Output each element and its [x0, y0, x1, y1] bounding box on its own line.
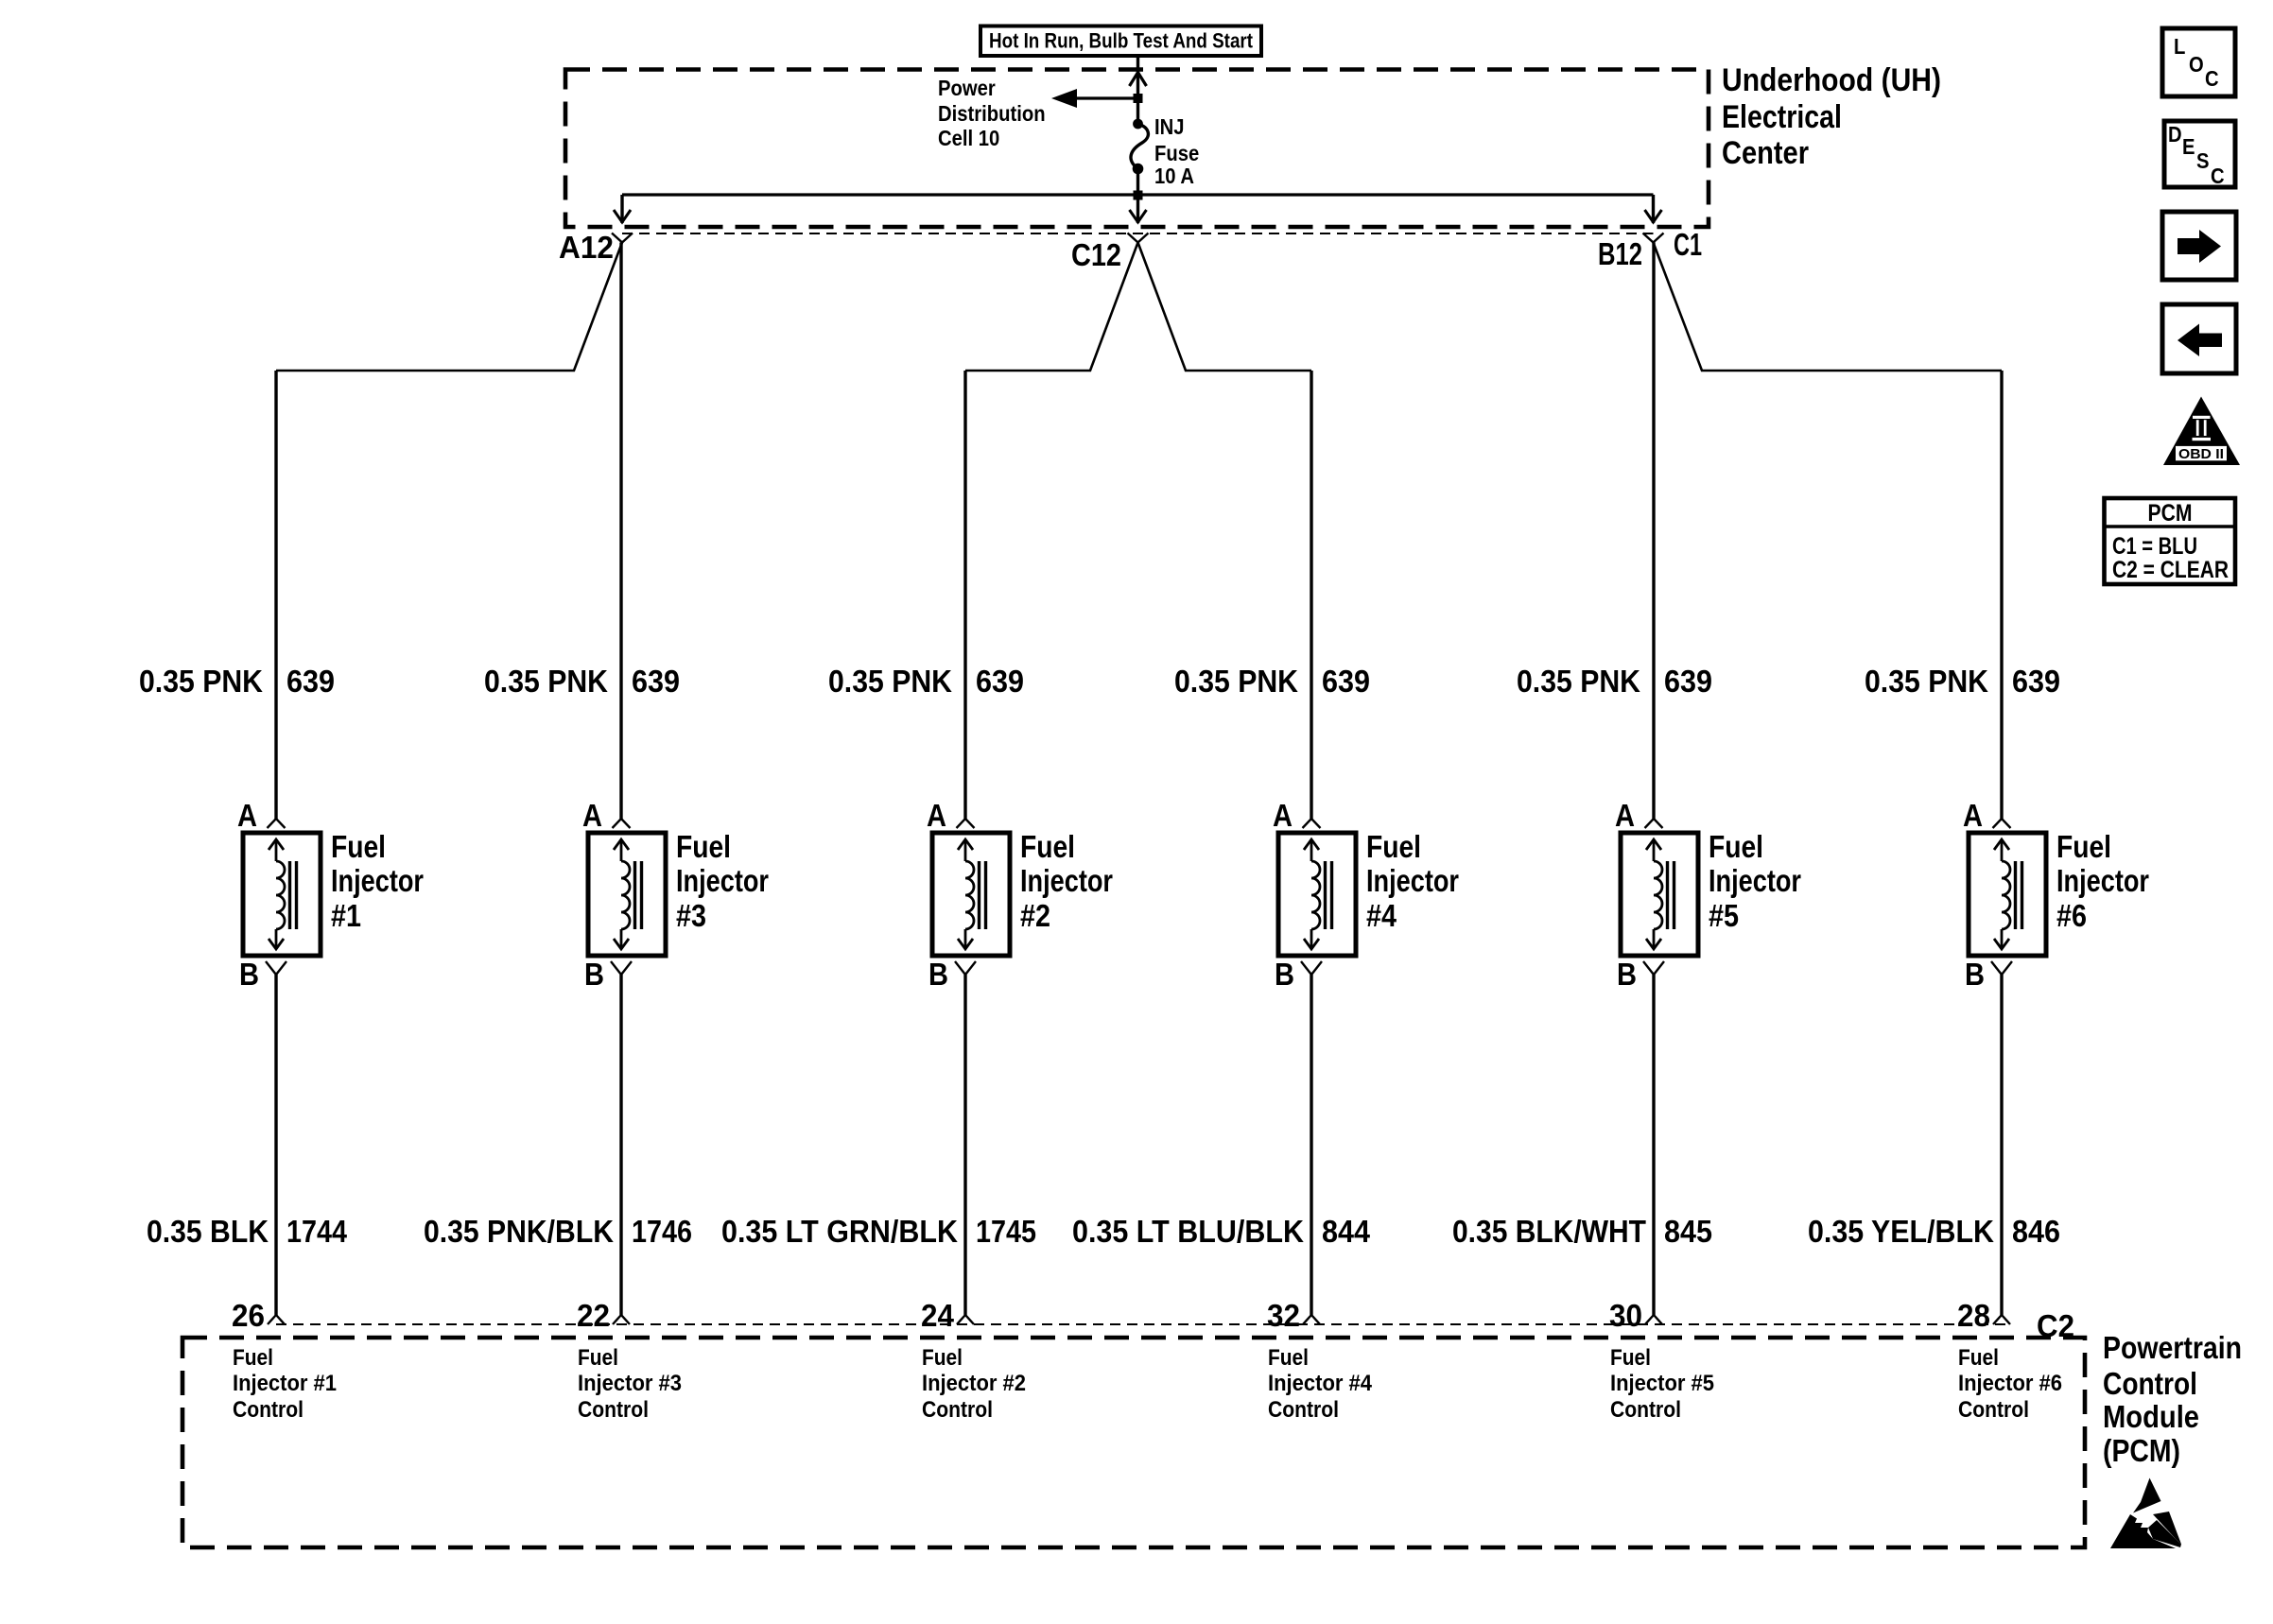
- svg-text:#1: #1: [331, 898, 361, 933]
- svg-text:0.35 PNK: 0.35 PNK: [1865, 664, 1988, 699]
- wire label 0.35 PNK 639 col1: [139, 664, 335, 699]
- icon back arrow box: [2162, 304, 2236, 373]
- svg-text:639: 639: [1664, 664, 1712, 699]
- svg-text:Underhood (UH): Underhood (UH): [1722, 62, 1941, 98]
- svg-text:C1 = BLU: C1 = BLU: [2112, 533, 2197, 560]
- svg-text:Injector #1: Injector #1: [233, 1371, 337, 1396]
- svg-text:L: L: [2174, 34, 2185, 59]
- wire C12 branch to injector 2: [965, 243, 1138, 820]
- svg-text:Fuel: Fuel: [1020, 829, 1075, 864]
- PCM connector face dashed line: [276, 1323, 2006, 1325]
- svg-text:Injector #6: Injector #6: [1958, 1371, 2062, 1396]
- label INJ Fuse 10 A: [1154, 114, 1199, 188]
- svg-text:Power: Power: [938, 76, 996, 100]
- svg-text:Control: Control: [2103, 1366, 2197, 1401]
- svg-text:639: 639: [632, 664, 680, 699]
- wire injector #1 to PCM pin 26: [274, 975, 277, 1315]
- wire label 0.35 PNK 639 col4: [1174, 664, 1370, 699]
- svg-text:Fuel: Fuel: [1610, 1345, 1651, 1371]
- wire from Hot In Run box down to fuse: [1136, 58, 1139, 124]
- wire injector #6 to PCM pin 28: [2000, 975, 2003, 1315]
- label C1: [1674, 227, 1702, 262]
- wire label 0.35 LT BLU/BLK 844: [1072, 1214, 1371, 1249]
- svg-text:Fuel: Fuel: [578, 1345, 618, 1371]
- svg-text:639: 639: [1322, 664, 1370, 699]
- svg-text:0.35 BLK: 0.35 BLK: [147, 1214, 269, 1249]
- svg-text:#5: #5: [1709, 898, 1739, 933]
- svg-text:639: 639: [286, 664, 335, 699]
- svg-text:Injector: Injector: [331, 863, 424, 898]
- svg-text:10 A: 10 A: [1154, 164, 1194, 188]
- connector pin 32: [1267, 1298, 1320, 1333]
- svg-text:B: B: [1965, 957, 1985, 992]
- wire label 0.35 YEL/BLK 846: [1808, 1214, 2060, 1249]
- svg-text:(PCM): (PCM): [2103, 1433, 2180, 1468]
- wire injector #3 to PCM pin 22: [619, 975, 622, 1315]
- svg-text:OBD II: OBD II: [2178, 446, 2224, 462]
- wire label 0.35 LT GRN/BLK 1745: [721, 1214, 1036, 1249]
- svg-text:Fuel: Fuel: [922, 1345, 963, 1371]
- svg-text:Control: Control: [922, 1397, 993, 1423]
- label Underhood (UH) Electrical Center: [1722, 62, 1941, 171]
- PCM label Fuel Injector #3 Control: [578, 1345, 682, 1423]
- connector B12: [1598, 233, 1664, 272]
- svg-text:B: B: [239, 957, 259, 992]
- svg-text:1745: 1745: [976, 1214, 1036, 1249]
- PCM label Fuel Injector #2 Control: [922, 1345, 1026, 1423]
- arrow up into Hot In Run box: [1130, 73, 1147, 87]
- svg-text:Fuel: Fuel: [233, 1345, 273, 1371]
- svg-text:A: A: [1963, 798, 1983, 833]
- UH EC connector face dashed line: [622, 233, 1654, 234]
- fuel injector #1 (column 1): [237, 798, 321, 992]
- svg-text:32: 32: [1267, 1298, 1300, 1333]
- wire label 0.35 PNK 639 col2: [484, 664, 680, 699]
- bus drop to A12: [614, 195, 631, 223]
- svg-text:Center: Center: [1722, 135, 1809, 171]
- label Powertrain Control Module (PCM): [2103, 1330, 2242, 1468]
- svg-text:639: 639: [976, 664, 1024, 699]
- svg-text:0.35 YEL/BLK: 0.35 YEL/BLK: [1808, 1214, 1994, 1249]
- svg-text:0.35 PNK: 0.35 PNK: [484, 664, 608, 699]
- svg-text:A: A: [1615, 798, 1635, 833]
- bus drop to B12: [1645, 195, 1662, 223]
- svg-text:C: C: [2211, 164, 2225, 188]
- svg-text:PCM: PCM: [2148, 500, 2193, 527]
- connector pin 28: [1957, 1298, 2010, 1333]
- svg-text:Injector #2: Injector #2: [922, 1371, 1026, 1396]
- connector pin 22: [577, 1298, 630, 1333]
- wire label 0.35 PNK 639 col3: [828, 664, 1024, 699]
- svg-text:A: A: [582, 798, 602, 833]
- svg-text:Fuel: Fuel: [2056, 829, 2111, 864]
- icon forward arrow box: [2162, 212, 2236, 280]
- svg-text:D: D: [2168, 122, 2182, 147]
- svg-text:Cell 10: Cell 10: [938, 126, 999, 150]
- svg-text:Module: Module: [2103, 1399, 2199, 1434]
- svg-text:C12: C12: [1071, 237, 1121, 272]
- svg-text:Fuel: Fuel: [331, 829, 386, 864]
- svg-text:Injector: Injector: [1709, 863, 1801, 898]
- svg-text:24: 24: [921, 1298, 955, 1333]
- label Power Distribution Cell 10: [938, 76, 1046, 150]
- svg-text:C2 = CLEAR: C2 = CLEAR: [2112, 557, 2229, 583]
- Powertrain Control Module dashed box: [182, 1338, 2085, 1547]
- wire label 0.35 PNK/BLK 1746: [424, 1214, 692, 1249]
- svg-text:C1: C1: [1674, 227, 1702, 262]
- label C2: [2037, 1308, 2074, 1343]
- PCM label Fuel Injector #5 Control: [1610, 1345, 1714, 1423]
- connector pin 24: [921, 1298, 974, 1333]
- fuel injector #2 (column 3): [927, 798, 1010, 992]
- svg-text:B: B: [1617, 957, 1637, 992]
- svg-text:30: 30: [1609, 1298, 1642, 1333]
- PCM connector legend box: [2105, 498, 2236, 584]
- wire fuse to bus: [1136, 169, 1139, 196]
- svg-text:#6: #6: [2056, 898, 2087, 933]
- label Fuel Injector #2: [1020, 829, 1113, 933]
- svg-text:Powertrain: Powertrain: [2103, 1330, 2242, 1365]
- svg-text:639: 639: [2012, 664, 2060, 699]
- svg-text:0.35 PNK: 0.35 PNK: [1517, 664, 1640, 699]
- wire injector #2 to PCM pin 24: [963, 975, 966, 1315]
- svg-text:Electrical: Electrical: [1722, 99, 1842, 135]
- svg-text:Injector: Injector: [1366, 863, 1459, 898]
- svg-text:#2: #2: [1020, 898, 1050, 933]
- svg-text:Control: Control: [1958, 1397, 2029, 1423]
- wire label 0.35 PNK 639 col6: [1865, 664, 2060, 699]
- svg-text:A12: A12: [559, 230, 614, 265]
- label Fuel Injector #3: [676, 829, 769, 933]
- icon LOC box: [2162, 28, 2235, 96]
- svg-text:0.35 BLK/WHT: 0.35 BLK/WHT: [1452, 1214, 1646, 1249]
- svg-text:#4: #4: [1366, 898, 1397, 933]
- svg-text:A: A: [927, 798, 946, 833]
- svg-text:846: 846: [2012, 1214, 2060, 1249]
- wire label 0.35 PNK 639 col5: [1517, 664, 1712, 699]
- svg-text:Injector #5: Injector #5: [1610, 1371, 1714, 1396]
- svg-text:A: A: [1273, 798, 1293, 833]
- fuel injector #5 (column 5): [1615, 798, 1698, 992]
- svg-text:Injector: Injector: [676, 863, 769, 898]
- fuel injector #3 (column 2): [582, 798, 666, 992]
- PCM label Fuel Injector #4 Control: [1268, 1345, 1373, 1423]
- svg-text:845: 845: [1664, 1214, 1712, 1249]
- svg-text:#3: #3: [676, 898, 706, 933]
- svg-text:Distribution: Distribution: [938, 101, 1046, 126]
- wire injector #5 to PCM pin 30: [1652, 975, 1655, 1315]
- fuel injector #6 (column 6): [1963, 798, 2046, 992]
- svg-text:C: C: [2205, 66, 2219, 91]
- svg-text:INJ: INJ: [1154, 114, 1185, 139]
- wire label 0.35 BLK 1744: [147, 1214, 348, 1249]
- svg-text:0.35 PNK: 0.35 PNK: [828, 664, 952, 699]
- bus wire across UH EC: [622, 193, 1654, 196]
- svg-text:Hot In Run, Bulb Test And Star: Hot In Run, Bulb Test And Start: [989, 29, 1254, 53]
- svg-text:Injector: Injector: [2056, 863, 2149, 898]
- svg-text:Fuel: Fuel: [1709, 829, 1763, 864]
- connector pin 30: [1609, 1298, 1662, 1333]
- svg-text:B: B: [928, 957, 948, 992]
- svg-text:Fuel: Fuel: [1958, 1345, 1999, 1371]
- fuse INJ 10A element: [1131, 119, 1148, 175]
- PCM label Fuel Injector #6 Control: [1958, 1345, 2062, 1423]
- bus drop to C12: [1130, 195, 1147, 223]
- PCM label Fuel Injector #1 Control: [233, 1345, 337, 1423]
- svg-text:Injector #4: Injector #4: [1268, 1371, 1373, 1396]
- svg-text:Control: Control: [1610, 1397, 1681, 1423]
- svg-text:Fuel: Fuel: [1268, 1345, 1309, 1371]
- svg-text:1746: 1746: [632, 1214, 692, 1249]
- svg-text:0.35 LT GRN/BLK: 0.35 LT GRN/BLK: [721, 1214, 958, 1249]
- wire A12 branch to injector 1: [276, 243, 622, 820]
- wire B12 branch to injector 6: [1654, 243, 2003, 820]
- wire B12 branch to injector 5: [1652, 243, 1655, 820]
- svg-text:Control: Control: [1268, 1397, 1339, 1423]
- svg-text:O: O: [2189, 52, 2204, 77]
- svg-text:Fuel: Fuel: [1366, 829, 1421, 864]
- svg-text:Injector: Injector: [1020, 863, 1113, 898]
- label Fuel Injector #5: [1709, 829, 1801, 933]
- connector A12: [559, 230, 633, 265]
- svg-text:B: B: [1275, 957, 1294, 992]
- svg-text:28: 28: [1957, 1298, 1990, 1333]
- label Fuel Injector #6: [2056, 829, 2149, 933]
- svg-text:B12: B12: [1598, 236, 1642, 271]
- svg-text:0.35 PNK: 0.35 PNK: [139, 664, 263, 699]
- icon OBD II triangle: [2163, 397, 2240, 466]
- icon DESC box: [2164, 121, 2235, 188]
- ESD sensitivity symbol: [2110, 1478, 2181, 1549]
- svg-text:B: B: [584, 957, 604, 992]
- wire A12 branch to injector 3: [619, 243, 622, 820]
- svg-text:844: 844: [1322, 1214, 1371, 1249]
- svg-text:E: E: [2182, 134, 2195, 159]
- label Fuel Injector #1: [331, 829, 424, 933]
- svg-text:S: S: [2196, 148, 2210, 173]
- arrow to Power Distribution Cell 10: [1051, 89, 1138, 108]
- svg-text:0.35 PNK/BLK: 0.35 PNK/BLK: [424, 1214, 614, 1249]
- svg-text:1744: 1744: [286, 1214, 348, 1249]
- connector pin 26: [232, 1298, 285, 1333]
- junction node to power distribution: [1134, 94, 1143, 103]
- svg-text:Injector #3: Injector #3: [578, 1371, 682, 1396]
- svg-text:22: 22: [577, 1298, 610, 1333]
- svg-text:Control: Control: [233, 1397, 304, 1423]
- svg-text:Fuse: Fuse: [1154, 141, 1199, 165]
- fuel injector #4 (column 4): [1273, 798, 1356, 992]
- svg-text:0.35 LT BLU/BLK: 0.35 LT BLU/BLK: [1072, 1214, 1304, 1249]
- svg-text:0.35 PNK: 0.35 PNK: [1174, 664, 1298, 699]
- svg-text:Control: Control: [578, 1397, 649, 1423]
- Underhood (UH) Electrical Center dashed box: [565, 70, 1709, 228]
- wire injector #4 to PCM pin 32: [1310, 975, 1312, 1315]
- wire label 0.35 BLK/WHT 845: [1452, 1214, 1712, 1249]
- svg-text:Fuel: Fuel: [676, 829, 731, 864]
- wire C12 branch to injector 4: [1138, 243, 1312, 820]
- label Fuel Injector #4: [1366, 829, 1459, 933]
- bus junction node: [1134, 191, 1143, 200]
- svg-text:A: A: [237, 798, 257, 833]
- connector C12: [1071, 233, 1149, 273]
- svg-text:26: 26: [232, 1298, 265, 1333]
- power feed label box: Hot In Run, Bulb Test And Start: [980, 26, 1261, 57]
